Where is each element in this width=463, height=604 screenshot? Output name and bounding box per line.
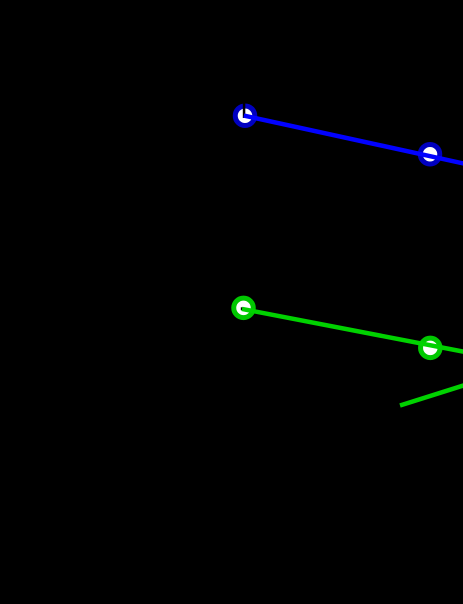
marker B2 (blue series point 2) — [420, 144, 440, 164]
dark tip at G1 — [241, 307, 243, 310]
green line — [242, 309, 463, 352]
marker G1 (green series point 1) — [234, 298, 254, 318]
green segment (bottom right) — [400, 385, 463, 405]
error bar at B1 (black, over marker) — [243, 93, 246, 118]
marker G2 (green series point 2) — [421, 338, 441, 358]
blue line — [244, 116, 463, 164]
marker B1 (blue series point 1) — [235, 106, 255, 126]
